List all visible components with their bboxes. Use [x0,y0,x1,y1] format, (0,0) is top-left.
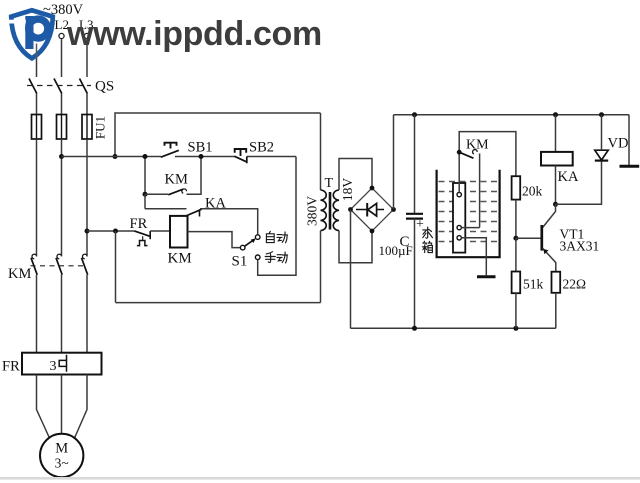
svg-text:S1: S1 [232,254,248,270]
contactor KM main pole 3 [82,254,86,259]
node L2 terminal [59,33,64,38]
thermal contact FR heater symbol [137,241,148,246]
label zi of 自动 auto [266,231,274,242]
contact KM tank blade [459,152,473,158]
logo white slit [8,20,26,24]
capacitor C plates [406,213,423,215]
label dong of 手动 manual [277,252,288,263]
wire L1 fuse to KM contact [36,139,38,257]
svg-text:3: 3 [50,359,57,374]
svg-text:KA: KA [205,196,226,212]
watermark www.ippdd.com [67,15,322,54]
logo P bowl [25,15,51,41]
switch QS pole 2 blade [54,79,62,94]
wire KA coil bottom lead [555,166,557,205]
label xiang of 水箱 tank [422,241,432,252]
node L2 bus tap [59,154,64,159]
svg-text:SB1: SB1 [188,140,213,156]
wire KA coil top lead [555,115,557,152]
switch QS linkage dashed [27,85,91,87]
node bridge AC2 [370,229,375,234]
transistor VT1 emitter arrow [543,249,548,254]
ground tank [477,275,496,278]
node bridge AC1 [370,186,375,191]
wire control bottom [116,302,321,304]
wire L2 QS to fuse [61,94,63,115]
node bridge DC+ [391,207,396,212]
wire FR to KM coil [150,230,170,232]
wire cap upper lead [414,115,416,214]
resistor 22ohm [552,272,561,293]
svg-text:18V: 18V [340,178,355,202]
fuse FU1 pole 3 [82,115,92,140]
wire 20k to base node [515,200,517,239]
svg-text:KM: KM [8,266,31,282]
contactor KM main pole 2 [57,254,61,259]
svg-text:22Ω: 22Ω [563,277,587,292]
wire 51k to rail [515,293,517,328]
node KM tank contact [457,150,462,155]
wire L3 KM to FR box [86,275,88,353]
wire KA row drop [144,194,146,209]
rectifier bridge diamond [351,188,394,231]
node L3 terminal [84,33,89,38]
contact KA static post [199,209,201,216]
wire middle electrode [461,227,479,229]
thermal contact FR row wire [87,230,134,232]
node KM aux left top [143,154,148,159]
svg-text:VD: VD [608,136,629,152]
svg-text:KA: KA [558,169,579,185]
wire L1 KM to FR box [36,275,38,353]
motor M circle [40,434,83,477]
node L3 control tap [85,229,90,234]
wire DC+ riser [393,115,395,210]
wire VD to rail [601,115,603,151]
thermal contact FR static post [149,231,151,239]
wire KM aux left drop [144,157,146,195]
thermal contact FR actuator link [142,236,144,240]
svg-text:QS: QS [95,79,114,95]
wire secondary bottom lead to bridge AC2 [339,231,372,263]
node 51k bottom junction [513,326,518,331]
selector S1 auto terminal [255,235,260,240]
water level dashed lines [439,182,499,242]
logo shield [11,10,53,58]
node KA top junction [553,112,558,117]
wire KM tank static post [479,154,481,228]
pushbutton SB1 actuator [165,143,177,149]
wire bus segment 2 [175,156,234,158]
fuse FU1 pole 1 [32,115,42,140]
coil KM rectangle [170,216,188,248]
contact KA blade [186,209,202,216]
wire KA row left [145,208,187,210]
tank 水箱 walls [437,170,500,258]
wire L1 FR box to motor [37,375,50,439]
wire L1 QS to fuse [36,94,38,115]
wire top electrode riser [459,132,516,193]
svg-text:3~: 3~ [55,456,69,471]
wire primary bottom lead [320,231,322,303]
resistor 20k [512,176,521,199]
switch QS pole 1 blade [29,79,37,94]
wire secondary top lead to bridge AC1 [339,159,372,191]
contact KM aux hook [182,189,187,193]
wire L3 FR box to motor [74,375,87,439]
node bridge DC- [348,207,353,212]
diode VD [595,150,608,160]
fuse FU1 pole 2 [57,115,67,140]
svg-text:380V: 380V [305,196,320,226]
wire KA row right [200,209,258,235]
node bus-top junction [113,154,118,159]
wire rail to chassis [628,115,630,165]
wire positive rail [394,114,630,116]
pushbutton SB2 blade [234,156,246,162]
wire L2 drop to QS [61,39,63,77]
svg-text:FU1: FU1 [93,116,108,139]
svg-text:FR: FR [2,359,20,375]
node KM aux right top [199,154,204,159]
transistor VT1 collector lead [543,204,556,227]
svg-text:T: T [325,176,334,191]
node cap bottom junction [412,326,417,331]
relay coil KA [541,152,573,166]
selector S1 common terminal [240,245,245,250]
wire KM aux row left [145,193,168,195]
switch QS pole 3 blade [80,79,88,94]
wire negative rail [351,327,556,329]
wire L2 KM to FR box [61,275,63,353]
wire DC- drop [350,210,352,329]
wire manual branch [258,157,296,276]
thermal relay FR heater box [22,353,102,375]
bottom strip [0,477,640,480]
transformer T core [329,192,332,230]
wire L1 drop to QS [36,39,38,77]
contactor KM main pole 1 [32,254,36,259]
node collector junction [553,202,558,207]
selector S1 manual terminal [255,255,260,260]
selector S1 wiper [245,240,254,246]
wire L1 through logo [36,44,38,59]
wire control return drop [115,231,117,303]
node base junction [513,236,518,241]
electrode middle [457,225,461,229]
svg-text:KM: KM [466,138,489,153]
transistor VT1 emitter lead [543,248,556,272]
wire VD branch [556,160,602,204]
node KM aux left bottom [143,192,148,197]
node VD top junction [599,112,604,117]
wire bottom electrode to ground [461,238,486,275]
svg-text:KM: KM [168,251,192,267]
wire L3 QS to fuse [86,94,88,115]
wire KM aux row right [187,157,202,195]
node FR row return junction [113,229,118,234]
wire L2 fuse to KM contact [61,139,63,257]
wire L3 fuse to KM contact [86,139,88,257]
wire 22ohm to rail [555,293,557,329]
wire bus segment 1 [62,156,162,158]
node L1 terminal [34,33,39,38]
thermal contact FR blade [134,231,149,236]
wire base [516,237,541,239]
contactor KM main linkage dashed [31,265,85,267]
svg-text:KM: KM [165,172,188,188]
wire primary top lead [320,113,322,190]
svg-text:FR: FR [130,216,148,232]
wire KM coil to S1 common [188,232,241,248]
contact KM aux blade [168,189,183,195]
wire L2 FR box to motor [61,375,63,435]
pushbutton SB2 actuator [235,149,247,156]
svg-text:M: M [55,441,68,457]
svg-text:SB2: SB2 [249,140,274,156]
label shui of 水箱 tank [423,227,433,238]
svg-text:100µF: 100µF [379,243,413,258]
pushbutton SB1 blade [161,150,179,157]
electrode top [457,192,461,196]
svg-text:20k: 20k [522,184,543,199]
electrode bottom [457,236,461,240]
logo P stem [25,16,33,49]
resistor 51k [512,272,521,294]
contact KM tank hook [473,150,478,154]
ground chassis right [620,165,640,168]
transformer T primary winding [321,190,327,231]
wire L3 drop to QS [86,39,88,77]
wire control top [115,113,321,157]
svg-text:51k: 51k [523,277,544,292]
rectifier bridge diode [356,209,384,211]
svg-text:3AX31: 3AX31 [560,239,600,254]
thermal relay FR heater symbol [59,355,66,372]
wire bus segment 3 [247,156,296,158]
transformer T secondary winding [333,190,339,231]
pushbutton SB2 static post [246,157,248,164]
node cap top junction [412,112,417,117]
transistor VT1 base bar [540,225,543,251]
label dong of 自动 auto [277,232,288,243]
probe holder [453,183,465,253]
wire base node to 51k [515,238,517,271]
wire cap lower lead [414,219,416,329]
label shou of 手动 manual [265,252,275,263]
